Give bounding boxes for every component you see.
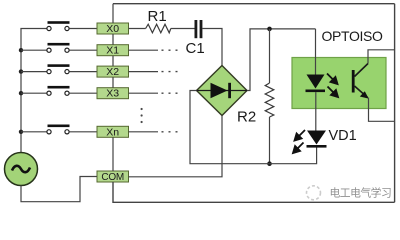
node ellipsis between X3 and Xn bbox=[141, 108, 143, 123]
switch S0 bbox=[47, 21, 70, 30]
optocoupler U1 body bbox=[292, 58, 386, 109]
wire X0 row left segment bbox=[20, 28, 47, 30]
svg-text:电工电气学习: 电工电气学习 bbox=[330, 186, 392, 200]
wire collector to right rail bbox=[368, 50, 395, 64]
wire opto LED cathode to VD1 bbox=[315, 92, 317, 131]
wire AC source to COM bbox=[21, 177, 97, 202]
svg-text:VD1: VD1 bbox=[329, 128, 357, 144]
svg-text:COM: COM bbox=[101, 172, 124, 183]
node X1 junction dot bbox=[19, 48, 23, 52]
wire X1 row left segment bbox=[21, 49, 47, 51]
wire X2-X3 link bbox=[112, 77, 114, 88]
terminal X3 bbox=[97, 88, 129, 100]
node X2 junction dot bbox=[19, 69, 23, 73]
terminal X2 bbox=[97, 66, 129, 78]
wire X1 output with dots bbox=[129, 49, 179, 51]
terminal X0 bbox=[97, 23, 129, 35]
svg-text:X0: X0 bbox=[106, 23, 119, 35]
VD1 light arrows bbox=[293, 130, 305, 153]
svg-text:R2: R2 bbox=[237, 109, 256, 126]
svg-text:X1: X1 bbox=[106, 45, 119, 57]
terminal Xn bbox=[97, 126, 129, 138]
wire X2 row left segment bbox=[21, 71, 47, 73]
switch Sn bbox=[47, 125, 70, 134]
switch S2 bbox=[47, 64, 70, 73]
wire top node to R2 bbox=[269, 29, 271, 83]
switch S1 bbox=[47, 43, 70, 52]
wire top rail bbox=[113, 3, 395, 5]
wire R2 to bottom rail bbox=[269, 117, 271, 164]
transistor Q1 phototransistor bbox=[352, 64, 369, 99]
wire R1 to C1 bbox=[171, 28, 195, 30]
wire emitter to right rail bbox=[369, 98, 395, 122]
wire bridge bottom vertex to COM bbox=[129, 116, 223, 177]
watermark logo bbox=[307, 186, 321, 200]
wire X0-X1 link bbox=[112, 34, 114, 45]
switch S3 bbox=[47, 86, 70, 95]
opto LED diode bbox=[306, 75, 326, 93]
wire Xn row left segment bbox=[21, 131, 47, 133]
svg-text:R1: R1 bbox=[148, 8, 167, 25]
wire X1-X2 link bbox=[112, 56, 114, 66]
wire C1 to bridge top bbox=[202, 29, 222, 67]
terminal COM bbox=[97, 171, 129, 183]
wire Xn output with dots bbox=[129, 131, 179, 133]
svg-text:C1: C1 bbox=[186, 40, 205, 57]
capacitor C1 bbox=[195, 20, 203, 38]
resistor R2 bbox=[265, 83, 274, 117]
AC source G1 bbox=[5, 153, 38, 186]
wire bottom rail from COM to right rail bbox=[113, 182, 395, 202]
node Xn junction dot bbox=[19, 130, 23, 134]
wire X3 output with dots bbox=[129, 92, 182, 94]
opto light arrows bbox=[327, 74, 338, 98]
node X3 junction dot bbox=[19, 91, 23, 95]
wire Sn to Xn box bbox=[69, 131, 97, 133]
wire S3 to X3 box bbox=[69, 92, 97, 94]
LED VD1 bbox=[307, 131, 327, 148]
wire X2 output with dots bbox=[129, 71, 179, 73]
wire S2 to X2 box bbox=[69, 71, 97, 73]
wire Xn-COM link bbox=[112, 137, 114, 171]
bridge rectifier bbox=[197, 66, 248, 116]
node R2 top junction dot bbox=[267, 27, 272, 32]
wire bridge right vertex to top node bbox=[247, 29, 316, 91]
wire S1 to X1 box bbox=[69, 49, 97, 51]
wire X3 row left segment bbox=[21, 92, 47, 94]
terminal X1 bbox=[97, 45, 129, 57]
svg-text:Xn: Xn bbox=[106, 126, 119, 138]
node R2 bottom junction dot bbox=[267, 161, 272, 166]
wire X0 to R1 bbox=[129, 28, 146, 30]
svg-text:OPTOISO: OPTOISO bbox=[322, 28, 384, 44]
svg-text:X3: X3 bbox=[106, 88, 119, 100]
wire S0 to X0 box bbox=[69, 28, 97, 30]
wire bridge left vertex to minus rail bbox=[190, 91, 317, 164]
svg-text:X2: X2 bbox=[106, 66, 119, 78]
wire top node to opto LED anode bbox=[315, 29, 317, 76]
wire left bus vertical bbox=[20, 29, 22, 153]
wire right vertical rail bbox=[394, 4, 396, 203]
resistor R1 bbox=[146, 24, 171, 33]
wire X0 box top to top rail bbox=[112, 4, 114, 23]
